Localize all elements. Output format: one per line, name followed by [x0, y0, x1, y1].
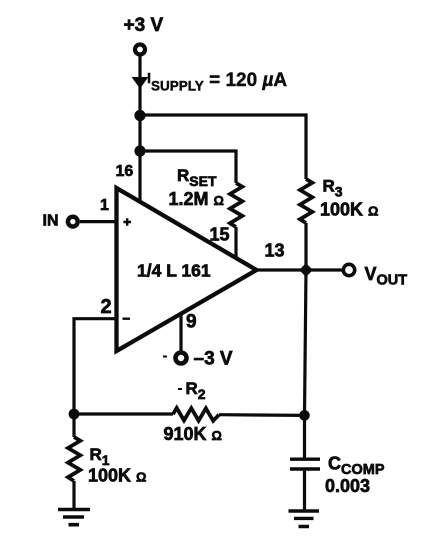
wire: horizontal to RSET	[140, 151, 236, 183]
ISUPPLY current arrow	[132, 77, 149, 89]
svg-text:IN: IN	[43, 213, 59, 230]
svg-text:R3: R3	[323, 177, 343, 200]
junction: compensation node	[299, 410, 310, 421]
svg-text:1.2M Ω: 1.2M Ω	[169, 189, 224, 209]
wire: R1 to ground	[72, 481, 75, 508]
junction: RSET branch	[134, 145, 145, 156]
wire: capacitor to ground	[303, 471, 306, 510]
svg-text:910K Ω: 910K Ω	[164, 424, 222, 444]
wire: R3 to output node	[304, 223, 307, 270]
wire: output rail down to compensation node	[305, 270, 307, 415]
resistor R1	[68, 437, 80, 481]
wire: feedback horizontal left part	[74, 412, 173, 415]
svg-text:–3 V: –3 V	[194, 349, 233, 370]
svg-text:ISUPPLY = 120 µA: ISUPPLY = 120 µA	[147, 70, 287, 94]
junction: top rail / R3 branch	[134, 110, 145, 121]
svg-text:100K Ω: 100K Ω	[320, 200, 378, 220]
VOUT terminal	[343, 264, 354, 275]
junction: feedback node	[69, 409, 80, 420]
svg-text:+3 V: +3 V	[124, 15, 164, 36]
+ input symbol	[123, 218, 131, 226]
svg-text:1: 1	[100, 197, 109, 214]
wire: R1 top	[72, 414, 75, 437]
resistor R2	[173, 408, 219, 421]
wire: IN to pin 1	[80, 220, 116, 223]
wire: +3V rail vertical	[138, 57, 141, 203]
ground (R1)	[58, 510, 90, 525]
op-amp U1 1/4 L161	[117, 188, 257, 351]
wire: node to capacitor	[303, 415, 306, 458]
svg-text:VOUT: VOUT	[365, 264, 408, 289]
svg-text:9: 9	[186, 312, 197, 333]
svg-text:1/4 L 161: 1/4 L 161	[137, 261, 211, 281]
svg-text:15: 15	[210, 225, 230, 245]
capacitor CCOMP	[290, 459, 320, 469]
svg-text:16: 16	[116, 163, 134, 180]
wire: pin 9 to -3V terminal	[179, 314, 182, 352]
-3V terminal	[176, 353, 187, 364]
+3V supply terminal	[135, 45, 145, 55]
svg-text:2: 2	[101, 296, 112, 318]
svg-text:R2: R2	[186, 379, 206, 402]
ground (CCOMP)	[289, 511, 320, 527]
wire: pin 2 feedback	[74, 319, 116, 414]
resistor R3	[300, 179, 312, 223]
stray dash before R2	[178, 388, 182, 390]
- input symbol	[123, 318, 131, 320]
svg-text:100K Ω: 100K Ω	[88, 466, 146, 486]
stray dash before -3V terminal	[163, 356, 167, 358]
IN terminal	[68, 217, 78, 227]
wire: RSET to pin 15	[234, 227, 237, 257]
wire: feedback horizontal right part	[219, 413, 305, 417]
svg-text:RSET: RSET	[177, 166, 217, 189]
wire: top horizontal to R3	[140, 115, 306, 179]
svg-text:CCOMP: CCOMP	[328, 454, 385, 479]
svg-text:13: 13	[265, 241, 285, 261]
wire: output	[257, 268, 343, 271]
resistor RSET	[230, 183, 242, 227]
junction: output node	[299, 263, 313, 277]
svg-text:0.003: 0.003	[325, 476, 370, 496]
